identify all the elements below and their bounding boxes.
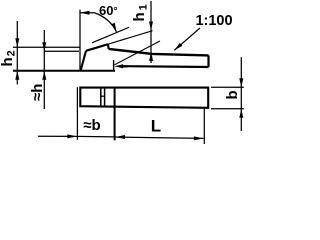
wire: 60 degree slant ray	[92, 27, 129, 43]
wire: nose top edge	[86, 44, 108, 51]
svg-text:L: L	[151, 117, 161, 136]
node: key side view outline	[81, 44, 209, 70]
svg-text:1:100: 1:100	[195, 13, 232, 29]
wire: key seat bottom line	[13, 70, 115, 72]
node: h1 dimension lower arrow	[149, 52, 153, 61]
wire: plan nose dash	[101, 95, 104, 97]
wire: plan thin left line	[76, 87, 78, 140]
node: label approx-h	[30, 82, 42, 102]
node: 60 degree dimension	[80, 12, 95, 14]
node: b dimension line	[240, 57, 242, 131]
wire: plan nose back edge 2	[104, 88, 106, 107]
wire: upper wedge line	[108, 31, 153, 45]
svg-text:60°: 60°	[99, 3, 117, 18]
node: key bottom arrowhead	[114, 64, 123, 68]
wire: key bottom edge	[120, 65, 209, 68]
wire: h2 top extension line	[13, 46, 80, 48]
wire: L right extension	[203, 108, 205, 144]
wire: plan nose back edge 1	[100, 88, 102, 107]
wire: lower wedge line	[115, 41, 161, 65]
node: approx-b dimension left arrow	[38, 135, 77, 137]
wire: approx-h top extension line	[44, 50, 79, 52]
node: L dimension left arrow	[115, 135, 125, 139]
node: h1 dimension upper arrow	[150, 1, 152, 63]
wire: seat end tick	[113, 60, 115, 71]
svg-text:≈h: ≈h	[29, 84, 46, 101]
node: plan view rectangle	[80, 88, 208, 108]
node: L dimension right arrow	[194, 136, 204, 140]
svg-text:≈b: ≈b	[83, 117, 100, 134]
node: taper leader line	[174, 28, 200, 50]
wire: L dimension line	[115, 137, 204, 138]
wire: plan thick divider and extension	[114, 88, 116, 141]
wire: key right end	[207, 55, 209, 67]
node: label b	[226, 90, 239, 101]
wire: approx-b dimension line	[77, 135, 115, 138]
wire: nose front edge	[81, 51, 86, 71]
node: h2 dimension line	[16, 21, 18, 85]
wire: 60 degree vertical extension	[79, 10, 81, 70]
node: approx-h dimension line	[43, 30, 45, 109]
wire: b top extension	[211, 86, 244, 88]
wire: b bottom extension	[211, 108, 244, 110]
wire: nose step	[107, 44, 110, 49]
svg-text:b: b	[224, 90, 241, 99]
wire: taper top surface	[109, 49, 209, 56]
